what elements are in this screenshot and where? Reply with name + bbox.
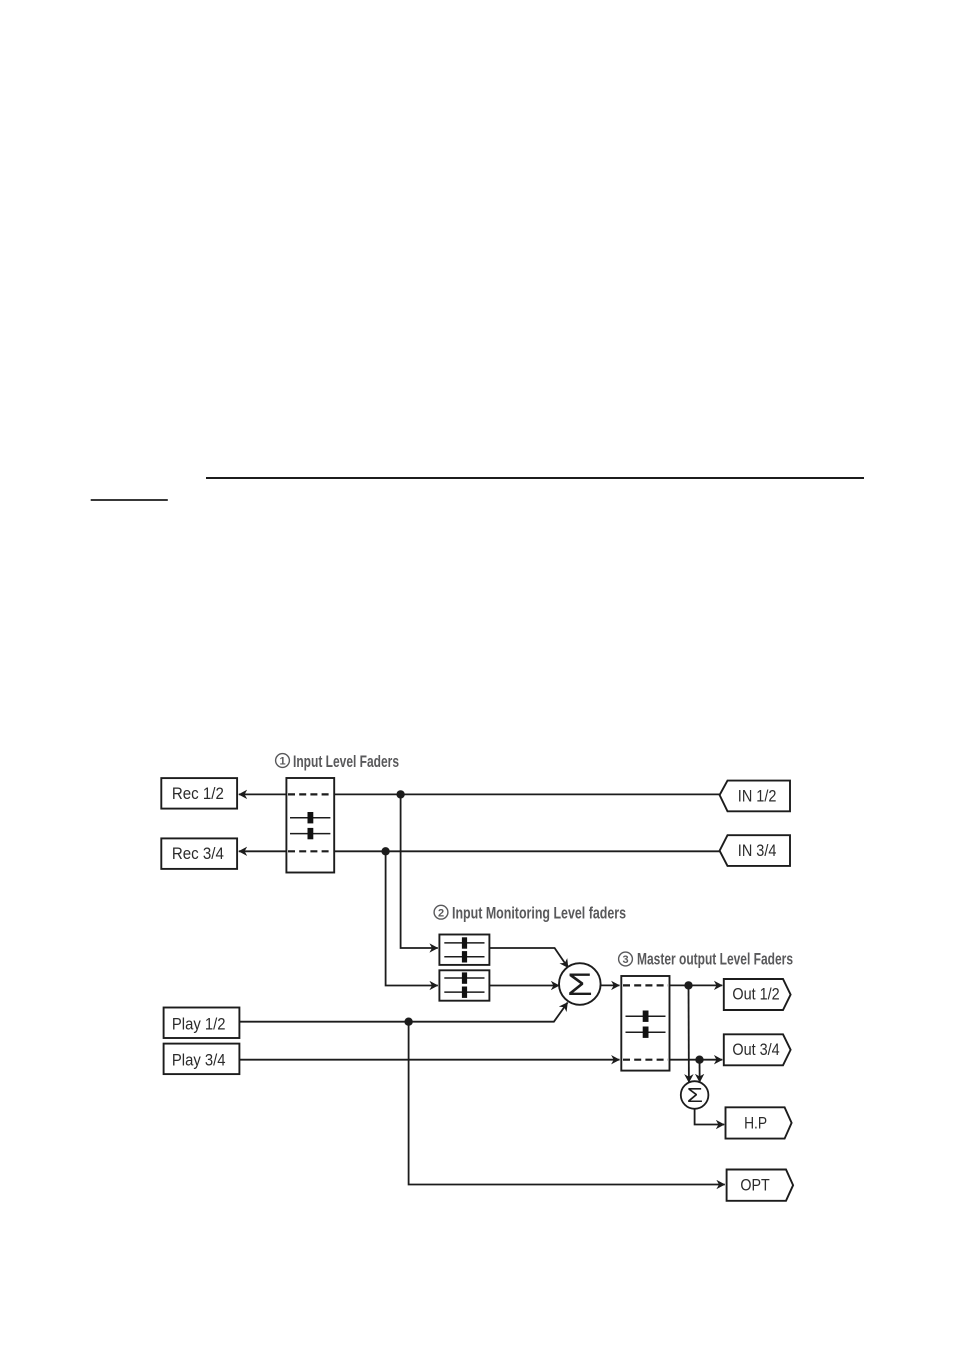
svg-text:Rec 1/2: Rec 1/2 bbox=[172, 785, 224, 803]
svg-text:Play 3/4: Play 3/4 bbox=[172, 1051, 226, 1069]
monitor fader block 1 bbox=[439, 935, 489, 965]
wire monitor fader 1 to summing node (elbow) bbox=[489, 948, 568, 968]
node on IN 1/2 wire bbox=[396, 790, 404, 798]
box Play 1/2 bbox=[164, 1008, 240, 1039]
node on Play 1/2 wire bbox=[404, 1018, 412, 1026]
input level fader block U1 bbox=[286, 778, 334, 873]
wire IN 3/4 tap down to monitor fader 2 bbox=[386, 851, 438, 985]
summing amp U2 bbox=[559, 963, 601, 1005]
master output fader block U3 bbox=[621, 976, 669, 1071]
wire IN 3/4 to input fader block bbox=[334, 850, 719, 852]
wire master block to Out 1/2 bbox=[670, 984, 723, 986]
node on Out 3/4 wire bbox=[695, 1056, 703, 1064]
label 2 circled digit bbox=[434, 905, 448, 919]
tag IN 3/4 bbox=[720, 835, 790, 866]
label 1 circled digit bbox=[276, 754, 290, 768]
svg-text:Master output Level Faders: Master output Level Faders bbox=[637, 950, 793, 968]
tag Out 1/2 bbox=[724, 979, 791, 1010]
wire Play 3/4 to master fader block bbox=[239, 1059, 619, 1061]
tag OPT bbox=[727, 1170, 794, 1201]
svg-text:OPT: OPT bbox=[740, 1176, 769, 1194]
short underline bbox=[91, 499, 168, 501]
label 3 circled digit bbox=[619, 952, 633, 966]
wire input fader block to Rec 1/2 (arrow) bbox=[239, 793, 287, 795]
monitor fader block 2 bbox=[439, 970, 489, 1000]
wire IN 1/2 to input fader block bbox=[334, 793, 719, 795]
box Rec 3/4 bbox=[161, 838, 237, 869]
svg-text:Σ: Σ bbox=[687, 1084, 703, 1107]
svg-text:2: 2 bbox=[438, 907, 444, 919]
box Rec 1/2 bbox=[161, 778, 237, 809]
svg-text:1: 1 bbox=[279, 756, 285, 768]
svg-text:Rec 3/4: Rec 3/4 bbox=[172, 845, 224, 863]
wire IN 1/2 tap down to monitor fader 1 bbox=[401, 794, 438, 948]
fader symbol 1 in master block bbox=[626, 1011, 666, 1022]
fader symbol 1 in input block bbox=[290, 812, 330, 823]
wire Play 1/2 tap down to OPT bbox=[409, 1022, 725, 1185]
wire headphone summing amp to H.P bbox=[695, 1109, 725, 1125]
wire master block to Out 3/4 bbox=[670, 1059, 723, 1061]
wire summing amp to master fader block bbox=[601, 984, 620, 986]
svg-text:Σ: Σ bbox=[567, 967, 593, 1002]
wire Play 1/2 to summing node (elbow) bbox=[239, 1003, 567, 1022]
svg-text:Out 1/2: Out 1/2 bbox=[732, 986, 779, 1004]
headphone summing amp U4 bbox=[681, 1081, 709, 1109]
tag IN 1/2 bbox=[720, 781, 790, 812]
svg-text:Input Monitoring Level faders: Input Monitoring Level faders bbox=[452, 904, 626, 922]
svg-text:Input Level Faders: Input Level Faders bbox=[293, 753, 399, 771]
wire input fader block to Rec 3/4 (arrow) bbox=[239, 850, 287, 852]
svg-text:IN 1/2: IN 1/2 bbox=[738, 788, 777, 806]
horizontal rule bbox=[206, 477, 864, 479]
fader symbol 2 in master block bbox=[626, 1027, 666, 1038]
svg-text:Out 3/4: Out 3/4 bbox=[732, 1041, 779, 1059]
tag H.P bbox=[726, 1107, 792, 1138]
svg-text:Play 1/2: Play 1/2 bbox=[172, 1015, 226, 1033]
svg-text:IN 3/4: IN 3/4 bbox=[738, 842, 777, 860]
box Play 3/4 bbox=[164, 1044, 240, 1075]
fader symbol 2 in input block bbox=[290, 828, 330, 839]
node on IN 3/4 wire bbox=[381, 847, 389, 855]
node on Out 1/2 wire bbox=[684, 981, 692, 989]
tag Out 3/4 bbox=[724, 1034, 791, 1065]
wire monitor fader 2 to summing node bbox=[489, 985, 559, 987]
svg-text:H.P: H.P bbox=[744, 1114, 767, 1132]
wire Out 1/2 tap down to headphone summing amp bbox=[688, 985, 690, 1082]
wire Out 3/4 tap down to headphone summing amp bbox=[699, 1060, 701, 1083]
svg-text:3: 3 bbox=[622, 954, 628, 966]
